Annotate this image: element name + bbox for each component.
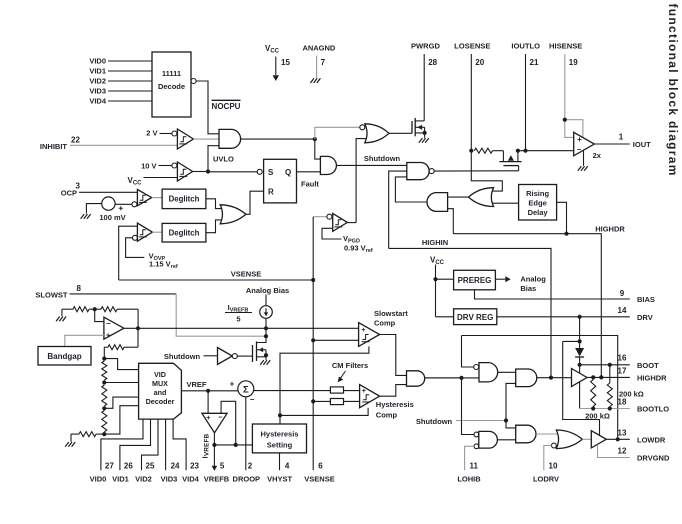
- wire VSENSE to slowstart comp minus: [313, 339, 358, 341]
- transistor Q2 droop sample switch: [499, 151, 521, 171]
- junction hysteresis node: [278, 413, 282, 417]
- wire OR output to latch R: [246, 191, 264, 214]
- wire decoder output to UVLO AND: [196, 81, 219, 134]
- node VID1 label: [89, 67, 106, 76]
- node VID0 pin label: [90, 475, 107, 484]
- node BIAS pin 9 label: [637, 295, 655, 304]
- gate AND high-side first: [479, 363, 498, 382]
- wire low AND to NOR: [536, 433, 558, 435]
- junction ladder tap3: [102, 406, 106, 410]
- wire shutdown low line: [456, 420, 506, 422]
- node INHIBIT pin 22 label: [40, 142, 68, 151]
- wire VPGD comparator output: [347, 222, 356, 224]
- node VID4 label: [89, 97, 107, 106]
- value label 200 kOhm lower: [585, 412, 610, 421]
- node Fault label: [301, 180, 319, 189]
- pin number 23: [190, 462, 199, 471]
- wire NAND output to switch gate: [434, 170, 518, 172]
- pin number 11: [470, 462, 479, 471]
- op-amp U4 slowstart: [104, 317, 124, 339]
- wire loop AND output to NAND input3: [395, 177, 427, 202]
- svg-text:22: 22: [71, 136, 80, 145]
- junction UVLO output node: [313, 137, 317, 141]
- resistor slowstart feedback: [95, 307, 138, 312]
- wire hysteresis setting to VHYST pin: [279, 453, 281, 470]
- svg-text:100 mV: 100 mV: [99, 213, 125, 222]
- pin number 17: [618, 366, 627, 375]
- junction feedback to output line: [234, 443, 238, 447]
- block hysteresis setting: [252, 424, 306, 453]
- pin number 2: [248, 462, 253, 471]
- block VID MUX text: [146, 370, 175, 406]
- wire buffer feedback: [221, 401, 236, 445]
- svg-text:Analog: Analog: [520, 275, 546, 284]
- junction shutdown low: [504, 418, 508, 422]
- block DRV REG: [454, 309, 497, 325]
- node 2V reference label: [146, 129, 157, 138]
- svg-text:2: 2: [248, 462, 253, 471]
- wire VSENSE to OVP comparator: [119, 226, 138, 280]
- wire VPGD reference stub: [322, 228, 341, 239]
- comparator slowstart hyst glyph: [362, 335, 370, 342]
- svg-text:+: +: [106, 331, 111, 340]
- gate NAND low-side bubble A: [474, 432, 479, 437]
- transistor Q3 slowstart discharge: [253, 336, 267, 362]
- wire hysteresis node to comp stub: [280, 408, 368, 416]
- svg-text:Shutdown: Shutdown: [364, 154, 401, 163]
- comparator slowstart plus: [361, 325, 366, 334]
- wire PWRGD pin to MOSFET drain: [423, 54, 425, 121]
- wire BOOTLO line: [580, 408, 630, 410]
- power VCC label at 10V comparator: [127, 176, 142, 187]
- svg-text:DROOP: DROOP: [233, 475, 261, 484]
- node SLOWST pin 8 label: [35, 291, 67, 300]
- pin number 20: [475, 58, 484, 67]
- node VID3 label: [89, 87, 106, 96]
- svg-text:Σ: Σ: [243, 385, 249, 396]
- node VREFB pin 5 label: [204, 475, 230, 484]
- svg-text:functional block diagram: functional block diagram: [666, 4, 680, 177]
- junction HISENSE loop: [563, 118, 567, 122]
- junction HIGHDR feedback join: [599, 375, 603, 379]
- node HIGHDR label (top): [595, 225, 625, 234]
- junction ladder tap1: [102, 357, 106, 361]
- svg-text:DRV: DRV: [637, 313, 653, 322]
- wire bias to current source: [265, 295, 267, 306]
- wire VREF to buffer plus: [207, 391, 209, 414]
- svg-text:5: 5: [220, 462, 225, 471]
- wire switch to amp minus input: [518, 150, 574, 152]
- wire 100mV to ground: [86, 204, 101, 214]
- svg-text:15: 15: [281, 58, 290, 67]
- value label 200 kOhm right: [619, 390, 644, 399]
- ground ANAGND pin 7 wire: [316, 56, 318, 78]
- gate OR mirrored (left-pointing): [469, 188, 494, 207]
- svg-text:+: +: [361, 325, 366, 334]
- wire UVLO node over the top to PWRGD NOR: [315, 127, 360, 139]
- resistor ladder R b: [102, 385, 107, 406]
- gate OR fault-set: [220, 205, 246, 224]
- svg-text:VID3: VID3: [89, 87, 106, 96]
- wire low buffer to DRVGND: [598, 445, 630, 458]
- wire 2V stub: [160, 133, 172, 135]
- wire HIGHDR feedback line: [453, 234, 601, 378]
- pin number 12: [618, 447, 627, 456]
- transistor Q1 PWRGD open-drain MOSFET: [412, 118, 425, 138]
- svg-text:HIGHDR: HIGHDR: [595, 225, 625, 234]
- junction PWM node: [459, 376, 463, 380]
- op-amp U3 current amp 2x: [574, 132, 595, 156]
- junction DRV node: [578, 315, 582, 319]
- wire SLOWST line: [70, 293, 177, 295]
- junction HIGHIN to predrive: [549, 376, 553, 380]
- pin number 15: [281, 58, 290, 67]
- svg-text:12: 12: [618, 447, 627, 456]
- wire slowstart comp lower stub: [280, 346, 369, 424]
- ground at slowstart resistor: [56, 317, 66, 322]
- wire tap1 to VID MUX: [104, 359, 138, 370]
- svg-text:28: 28: [428, 58, 437, 67]
- node VID2 label: [89, 77, 106, 86]
- wire VSENSE to VPGD comparator: [313, 216, 327, 218]
- wire OVP comp to deglitch2: [152, 231, 162, 233]
- wire OCP to comparator: [79, 191, 137, 193]
- svg-text:HIGHDR: HIGHDR: [637, 373, 667, 382]
- node OCP pin 3 label: [61, 189, 77, 198]
- ground ANAGND symbol: [310, 78, 320, 83]
- node Shutdown label (mid): [164, 352, 201, 361]
- svg-text:S: S: [268, 168, 274, 177]
- value label IVREFB over 5: [225, 303, 252, 324]
- pin number 6: [318, 462, 323, 471]
- svg-text:Setting: Setting: [267, 441, 293, 450]
- pin number 9: [620, 289, 625, 298]
- wire CM upper to hysteresis comp: [344, 390, 360, 392]
- junction R2 to BOOTLO: [608, 406, 612, 410]
- wire inverter to MOSFET gate: [237, 355, 252, 357]
- svg-text:23: 23: [190, 462, 199, 471]
- gate AND mirrored (left-pointing): [427, 193, 448, 212]
- ground at Q3: [260, 360, 270, 365]
- svg-text:DRV REG: DRV REG: [457, 313, 493, 322]
- wire low NAND to low AND: [497, 439, 515, 441]
- svg-text:Q: Q: [285, 168, 291, 177]
- svg-text:25: 25: [146, 462, 155, 471]
- gate NAND high-side inhibit bubble: [474, 365, 479, 370]
- wire VID0 input to decoder: [108, 60, 152, 62]
- wire VREF line: [181, 390, 237, 392]
- label plus polarity: [119, 206, 123, 210]
- op-amp minus label: [106, 319, 111, 328]
- junction VSENSE/horizontal: [311, 278, 315, 282]
- svg-text:Delay: Delay: [528, 208, 549, 217]
- value label 100 mV: [99, 213, 125, 222]
- wire 100mV to OCP comparator bubble: [115, 203, 132, 205]
- gate NAND shutdown 3-input: [407, 163, 429, 180]
- inverter output bubble: [232, 354, 237, 359]
- junction diode to BOOT: [578, 363, 582, 367]
- node DRVGND pin 12 label: [637, 454, 670, 463]
- wire DRV rail to low driver power: [563, 341, 600, 435]
- comparator VPGD input bubble: [327, 214, 332, 219]
- resistor ladder bottom to ground: [71, 432, 104, 442]
- resistor slowstart input: [62, 307, 95, 312]
- wire BOOT line: [580, 364, 630, 366]
- node DRV pin 14 label: [637, 313, 653, 322]
- node PWRGD pin 28 label: [411, 41, 441, 50]
- op-amp minus label: [577, 145, 582, 154]
- source V1 100mV offset circle: [102, 197, 115, 210]
- block CM filter upper: [330, 387, 343, 393]
- latch pin Q label: [285, 168, 291, 177]
- junction LOSENSE node: [469, 149, 473, 153]
- value label VPGD: [343, 234, 360, 245]
- svg-text:R: R: [268, 188, 274, 197]
- svg-text:CM Filters: CM Filters: [332, 361, 368, 370]
- power VCC pin 15 label: [265, 44, 280, 55]
- gate OR PWRGD: [365, 124, 389, 143]
- gate AND low-side: [516, 425, 536, 443]
- ground at ladder: [65, 442, 75, 447]
- node LOHIB pin 11 label: [457, 475, 481, 484]
- wire LOHIB to low NAND: [465, 446, 474, 470]
- node LOSENSE pin 20 label: [454, 41, 490, 50]
- wire PWM AND output: [425, 377, 462, 379]
- svg-text:21: 21: [530, 58, 539, 67]
- svg-text:Bandgap: Bandgap: [47, 352, 81, 361]
- wire deglitch1 to OR: [206, 199, 221, 209]
- wire VID2 input to decoder: [108, 80, 152, 82]
- svg-text:PWRGD: PWRGD: [411, 41, 441, 50]
- wire PWM line to high AND: [425, 377, 479, 379]
- node HISENSE pin 19 label: [549, 41, 582, 50]
- wire VPGD comp output to PWRGD NOR: [356, 139, 366, 223]
- resistor ladder top leg: [104, 328, 138, 358]
- junction ladder tap4: [102, 432, 106, 436]
- pin number 26: [124, 462, 133, 471]
- wire LOWDR output: [606, 438, 630, 440]
- wire OR tip to AND input: [448, 196, 469, 198]
- wire tap4 to VID MUX: [104, 406, 138, 434]
- wire deglitch2 to OR: [206, 220, 221, 233]
- wire PREREG to BIAS pin: [475, 290, 630, 299]
- node LOWDR pin 13 label: [637, 435, 666, 444]
- svg-text:9: 9: [620, 289, 625, 298]
- svg-text:200 kΩ: 200 kΩ: [585, 412, 610, 421]
- svg-text:VID1: VID1: [89, 67, 106, 76]
- gate NOR PWRGD input bubble: [360, 125, 365, 130]
- svg-text:VID2: VID2: [89, 77, 106, 86]
- wire high driver supply stub: [579, 365, 581, 373]
- comparator OVP: [137, 223, 152, 241]
- comparator 2V (UVLO): [177, 129, 193, 149]
- wire opamp output to slowstart comp: [124, 327, 359, 329]
- svg-text:Edge: Edge: [528, 199, 546, 208]
- ground at current amp: [578, 166, 588, 171]
- svg-text:VID0: VID0: [89, 57, 106, 66]
- pin number 14: [618, 306, 627, 315]
- resistor R2 200k BOOT-BOOTLO: [607, 365, 612, 409]
- svg-text:Fault: Fault: [301, 180, 319, 189]
- node 10V reference label: [141, 162, 156, 171]
- pin number 28: [428, 58, 437, 67]
- junction LOWDR node: [616, 437, 620, 441]
- svg-text:Decoder: Decoder: [146, 397, 175, 406]
- latch S input bubble: [257, 169, 262, 174]
- power VCC label (center): [430, 256, 445, 267]
- wire Q output to fault AND: [297, 171, 321, 173]
- latch pin S label: [268, 168, 274, 177]
- svg-text:INHIBIT: INHIBIT: [40, 142, 68, 151]
- wire VID1 pin 26: [120, 419, 151, 470]
- svg-text:18: 18: [618, 398, 627, 407]
- svg-text:HIGHIN: HIGHIN: [422, 238, 448, 247]
- node VID0 label: [89, 57, 106, 66]
- svg-text:4: 4: [285, 462, 290, 471]
- comparator slowstart: [359, 323, 380, 347]
- svg-text:+: +: [577, 135, 582, 144]
- buffer high-side driver: [572, 369, 588, 387]
- value label 0.93 Vref: [344, 244, 373, 255]
- wire NOR to low buffer: [582, 438, 591, 440]
- gate AND UVLO 3-input: [219, 129, 241, 148]
- svg-text:11111: 11111: [162, 69, 181, 78]
- wire LOWDR feedback line: [462, 336, 618, 440]
- svg-text:LOSENSE: LOSENSE: [454, 41, 490, 50]
- junction BOOT to 200k resistor: [608, 363, 612, 367]
- svg-text:7: 7: [321, 58, 326, 67]
- wire current source to slowstart node: [265, 318, 267, 336]
- wire VID1 input to decoder: [108, 70, 152, 72]
- gate AND PWM combine: [407, 371, 425, 386]
- decoder output inverter bubble: [191, 79, 196, 84]
- svg-text:Comp: Comp: [374, 319, 396, 328]
- svg-text:PREREG: PREREG: [458, 276, 492, 285]
- wire VSENSE vertical: [312, 217, 314, 471]
- svg-text:VID: VID: [154, 370, 166, 379]
- svg-text:Hysteresis: Hysteresis: [376, 400, 414, 409]
- comparator 2V input bubble: [172, 131, 177, 136]
- pin number 8: [77, 284, 82, 293]
- svg-text:+: +: [362, 386, 367, 395]
- wire VCC to 10V comparator: [144, 177, 178, 179]
- pin number 7: [321, 58, 326, 67]
- wire VCC to PREREG: [436, 278, 454, 280]
- ground ANAGND pin 7 label: [302, 44, 335, 53]
- gate NAND low-side: [479, 431, 498, 448]
- value label 2x: [593, 151, 602, 160]
- junction R1 to BOOTLO: [591, 406, 595, 410]
- wire DRV to diode: [579, 317, 581, 348]
- svg-text:VSENSE: VSENSE: [304, 475, 334, 484]
- svg-text:Decode: Decode: [158, 82, 185, 91]
- wire high driver return to BOOTLO: [579, 382, 581, 409]
- comparator OVP minus bubble: [133, 235, 138, 240]
- svg-text:IOUT: IOUT: [633, 140, 651, 149]
- svg-text:Analog Bias: Analog Bias: [246, 286, 289, 295]
- wire OVP reference stub: [126, 238, 145, 258]
- wire INHIBIT to 2V comparator: [70, 144, 177, 146]
- wire HISENSE pin line: [564, 54, 566, 120]
- wire DRV REG to DRV pin: [497, 316, 630, 318]
- junction VREFB output: [212, 443, 216, 447]
- wire fault AND output Shutdown line to NAND: [336, 164, 406, 166]
- svg-text:20: 20: [475, 58, 484, 67]
- svg-text:VID2: VID2: [135, 475, 152, 484]
- power VCC pin 15 arrow: [273, 57, 279, 81]
- svg-text:+: +: [206, 413, 211, 422]
- wire VSENSE horizontal: [119, 279, 314, 281]
- svg-text:−: −: [106, 319, 111, 328]
- junction HIGHDR to 200k: [591, 375, 595, 379]
- comparator 10V input bubble: [172, 163, 177, 168]
- wire 10V stub: [159, 165, 172, 167]
- node Slowstart Comp label: [374, 309, 408, 328]
- value label 1.15 Vref: [149, 260, 178, 271]
- pin number 22: [71, 136, 80, 145]
- op-amp plus label: [206, 413, 211, 422]
- junction Q3 source: [264, 353, 268, 357]
- wire 2V comparator output: [193, 138, 219, 140]
- source I1 IVREFB/5 circle: [260, 306, 273, 319]
- wire UVLO node to fault AND input: [315, 139, 321, 159]
- wire SLOWST to cap node: [176, 294, 266, 336]
- node HIGHIN label: [422, 238, 448, 247]
- pin number 21: [530, 58, 539, 67]
- resistor R1 200k HIGHDR-BOOTLO: [591, 377, 596, 408]
- svg-text:6: 6: [318, 462, 323, 471]
- svg-text:+: +: [230, 380, 235, 389]
- wire HIGHIN line: [389, 248, 551, 377]
- node DROOP pin 2 label: [233, 475, 261, 484]
- buffer low-side driver: [591, 431, 606, 448]
- block deglitch 1: [162, 189, 206, 209]
- wire delay output to HIGHDR feedback line: [557, 202, 567, 233]
- node HIGHDR pin 17 label: [637, 373, 667, 382]
- junction PWRGD MOSFET source: [423, 131, 427, 135]
- svg-text:27: 27: [105, 462, 114, 471]
- block deglitch 2: [162, 223, 206, 242]
- svg-text:Deglitch: Deglitch: [169, 229, 200, 238]
- wire tap2 to VID MUX: [104, 382, 138, 384]
- pin number 27: [105, 462, 114, 471]
- wire LODRV to NOR: [544, 446, 552, 471]
- wire VID3 pin 24: [165, 419, 167, 470]
- wire AND2 to high driver: [537, 377, 572, 379]
- wire VID3 input to decoder: [108, 90, 152, 92]
- wire resistor to ground: [61, 309, 63, 316]
- svg-text:Shutdown: Shutdown: [164, 352, 201, 361]
- node VID3 pin label: [161, 475, 178, 484]
- wire feedback to high NAND bubble: [462, 336, 474, 368]
- wire UVLO AND output: [241, 138, 315, 140]
- wire HISENSE kelvin loop: [565, 120, 583, 138]
- op-amp plus label: [577, 135, 582, 144]
- comparator 10V (VCC UVLO): [177, 162, 192, 181]
- wire PWRGD OR output to MOSFET gate: [389, 132, 412, 134]
- svg-text:17: 17: [618, 366, 627, 375]
- svg-text:VID3: VID3: [161, 475, 178, 484]
- svg-text:VID4: VID4: [182, 475, 200, 484]
- adder sigma circle: [238, 381, 254, 397]
- ground at PWRGD MOSFET: [419, 138, 429, 143]
- junction decode/10V/S-latch: [206, 169, 210, 173]
- svg-text:Bias: Bias: [520, 284, 536, 293]
- latch U2 SR box: [264, 159, 297, 203]
- gate AND high-side second: [516, 369, 537, 387]
- wire bandgap to plus input: [65, 335, 104, 346]
- wire rising edge delay to OR lower input: [493, 202, 519, 204]
